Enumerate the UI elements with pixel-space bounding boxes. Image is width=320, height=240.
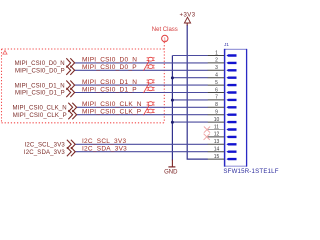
- port MIPI_CSI0_CLK_P: [13, 113, 67, 119]
- svg-text:9: 9: [215, 110, 218, 116]
- svg-text:J1: J1: [224, 42, 229, 47]
- power +3V3: [180, 12, 196, 26]
- pin bars 1-15: [226, 54, 236, 160]
- svg-text:SFW15R-1STE1LF: SFW15R-1STE1LF: [223, 168, 278, 175]
- port MIPI_CSI0_D0_P: [15, 69, 65, 75]
- svg-text:MIPI_CSI0_CLK_P: MIPI_CSI0_CLK_P: [82, 109, 141, 116]
- svg-text:MIPI_CSI0_D1_P: MIPI_CSI0_D1_P: [82, 86, 137, 93]
- net class dashed boundary: [2, 42, 165, 123]
- port MIPI_CSI0_CLK_N: [12, 106, 66, 112]
- svg-text:14: 14: [214, 147, 220, 153]
- port MIPI_CSI0_D0_N: [15, 61, 65, 67]
- wire pin4 GND: [172, 77, 208, 79]
- svg-text:7: 7: [215, 95, 218, 101]
- diff pair directive D1: [144, 80, 155, 94]
- svg-text:I2C_SCL_3V3: I2C_SCL_3V3: [82, 138, 126, 145]
- svg-text:MIPI_CSI0_D1_N: MIPI_CSI0_D1_N: [15, 83, 65, 89]
- no-ERC cross pin12: [204, 134, 210, 140]
- svg-text:MIPI_CSI0_CLK_N: MIPI_CSI0_CLK_N: [12, 106, 66, 112]
- wire pin10 GND: [172, 121, 208, 123]
- svg-text:MIPI_CSI0_D0_P: MIPI_CSI0_D0_P: [15, 69, 65, 75]
- wire MIPI_CSI0_CLK_N: [77, 106, 208, 108]
- wire MIPI_CSI0_D0_N: [75, 62, 208, 64]
- connector J1 box: [224, 49, 247, 167]
- junction pin10: [171, 121, 174, 124]
- svg-text:MIPI_CSI0_CLK_P: MIPI_CSI0_CLK_P: [13, 113, 67, 119]
- svg-text:5: 5: [215, 80, 218, 86]
- junction pin4: [171, 76, 174, 79]
- svg-text:I2C_SDA_3V3: I2C_SDA_3V3: [82, 146, 127, 153]
- svg-text:4: 4: [215, 73, 218, 79]
- svg-text:MIPI_CSI0_D1_N: MIPI_CSI0_D1_N: [82, 79, 137, 86]
- svg-text:I2C_SDA_3V3: I2C_SDA_3V3: [24, 150, 65, 156]
- svg-text:3: 3: [215, 65, 218, 71]
- svg-text:MIPI_CSI0_D0_N: MIPI_CSI0_D0_N: [82, 57, 137, 64]
- svg-text:15: 15: [214, 154, 220, 160]
- port MIPI_CSI0_D1_P: [15, 91, 65, 97]
- svg-text:I2C_SCL_3V3: I2C_SCL_3V3: [25, 143, 66, 149]
- svg-text:MIPI_CSI0_CLK_N: MIPI_CSI0_CLK_N: [82, 101, 142, 108]
- svg-text:2: 2: [215, 58, 218, 64]
- port I2C_SCL_3V3: [25, 143, 66, 149]
- wire I2C_SCL_3V3: [75, 143, 208, 145]
- port I2C_SDA_3V3: [24, 150, 65, 156]
- wire MIPI_CSI0_D1_N: [75, 84, 208, 86]
- no-ERC cross pin11: [204, 127, 210, 133]
- wire MIPI_CSI0_CLK_P: [77, 114, 208, 116]
- svg-text:1: 1: [215, 50, 218, 56]
- diff pair directive D0: [144, 57, 155, 71]
- wire pin1 GND: [172, 55, 208, 57]
- port MIPI_CSI0_D1_N: [15, 83, 65, 89]
- wire MIPI_CSI0_D1_P: [75, 92, 208, 94]
- svg-text:10: 10: [214, 117, 220, 123]
- wire I2C_SDA_3V3: [75, 151, 208, 153]
- junction pin7: [171, 99, 174, 102]
- svg-text:8: 8: [215, 102, 218, 108]
- pin 11 stub (unconnected, gray): [208, 129, 224, 131]
- svg-text:11: 11: [214, 124, 219, 130]
- svg-text:MIPI_CSI0_D0_P: MIPI_CSI0_D0_P: [82, 64, 137, 71]
- svg-text:Net Class: Net Class: [152, 27, 178, 33]
- svg-text:MIPI_CSI0_D0_N: MIPI_CSI0_D0_N: [15, 61, 65, 67]
- net class directive circle 1: [162, 35, 168, 41]
- pin stubs 1-15: [208, 56, 224, 160]
- diff pair directive CLK: [144, 102, 155, 116]
- svg-text:13: 13: [214, 139, 220, 145]
- svg-text:GND: GND: [164, 169, 178, 175]
- net class corner marker: [3, 50, 7, 54]
- svg-text:6: 6: [215, 87, 218, 93]
- ground symbol GND: [164, 160, 178, 176]
- wire +3V3 vertical to pin15: [187, 25, 208, 159]
- wire MIPI_CSI0_D0_P: [75, 69, 208, 71]
- svg-text:MIPI_CSI0_D1_P: MIPI_CSI0_D1_P: [15, 91, 65, 97]
- wire pin7 GND: [172, 99, 208, 101]
- wire GND vertical bus: [171, 56, 173, 161]
- svg-text:12: 12: [214, 132, 220, 138]
- pin numbers: [214, 50, 220, 160]
